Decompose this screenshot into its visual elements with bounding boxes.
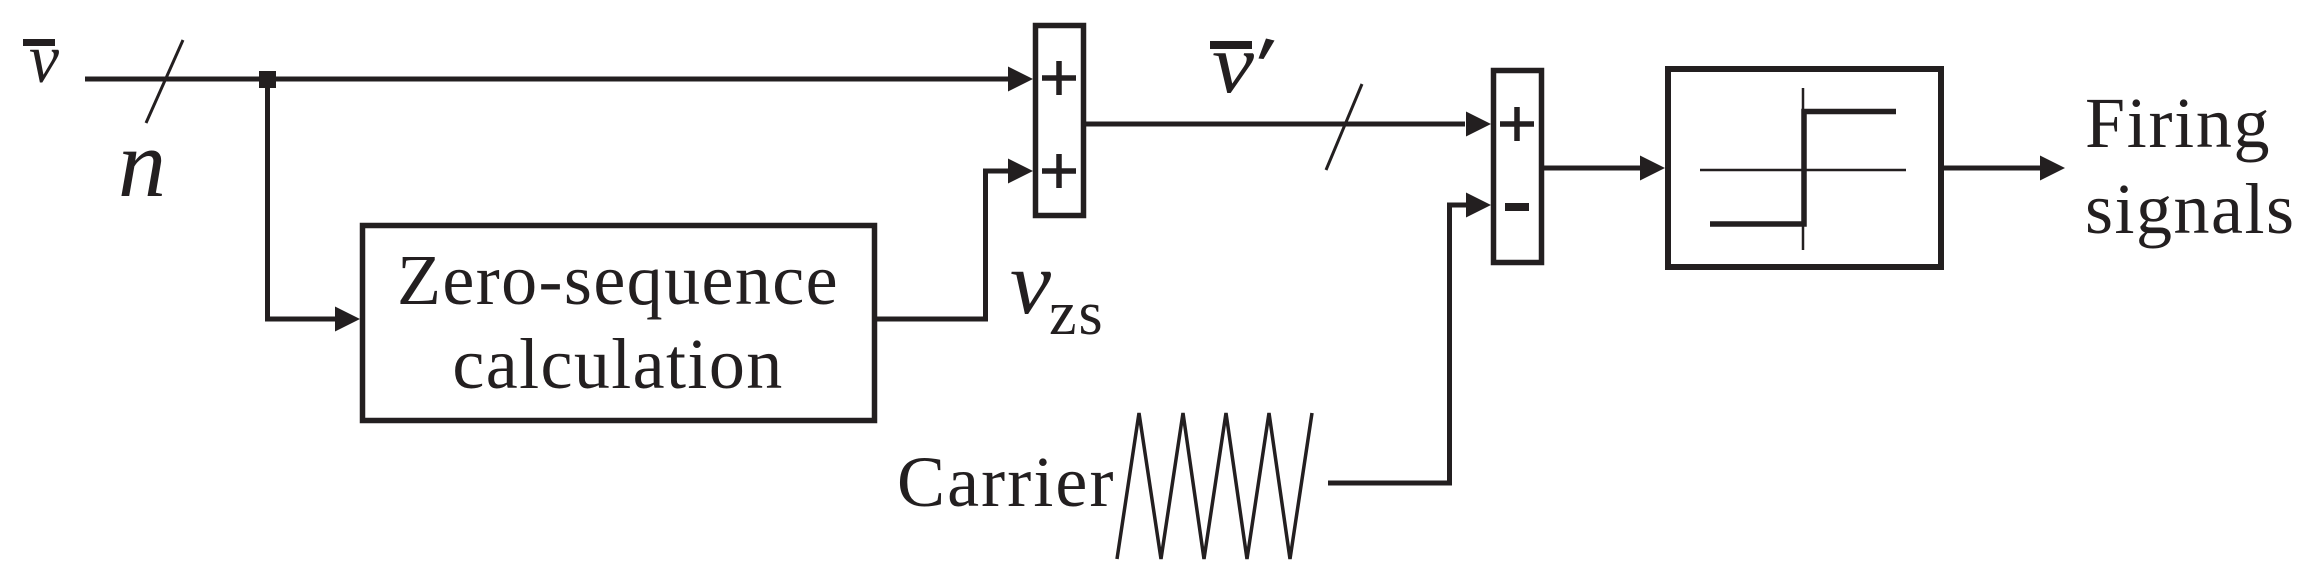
svg-text:v: v — [29, 21, 60, 98]
svg-text:Zero-sequence: Zero-sequence — [397, 240, 839, 320]
wire main input v-bar — [85, 77, 1012, 82]
label v-bar-prime — [1210, 17, 1275, 111]
svg-text:calculation: calculation — [452, 324, 783, 404]
wire junction down to zero-sequence box — [268, 79, 361, 332]
svg-text:Firing: Firing — [2085, 83, 2271, 163]
relay (sign function) block — [1668, 69, 1941, 267]
wire v-bar-prime from S1 to S2 — [1086, 112, 1491, 137]
label v-bar (input signal) — [23, 21, 60, 98]
bus slash on v-bar-prime wire — [1326, 84, 1362, 170]
block zero-sequence calculation — [363, 226, 875, 421]
wire relay output — [1944, 156, 2065, 181]
arrowhead into summer S1 top — [1008, 67, 1033, 92]
label Firing signals — [2085, 83, 2296, 249]
carrier triangular waveform — [1117, 413, 1312, 559]
svg-text:Carrier: Carrier — [897, 442, 1116, 522]
svg-text:signals: signals — [2085, 169, 2296, 249]
wire S2 to relay block — [1544, 156, 1665, 181]
svg-text:n: n — [118, 110, 166, 217]
wire carrier to summer S2 minus input — [1328, 193, 1491, 484]
bus slash on input wire — [146, 40, 183, 123]
svg-text:v: v — [1010, 234, 1051, 333]
svg-text:zs: zs — [1049, 280, 1105, 348]
summing block S2 — [1494, 71, 1542, 263]
wire vzs from box to summer S1 — [877, 159, 1033, 320]
summing block S1 — [1036, 26, 1084, 216]
label vzs — [1010, 234, 1105, 348]
svg-text:v: v — [1212, 17, 1254, 111]
junction node — [259, 71, 276, 88]
